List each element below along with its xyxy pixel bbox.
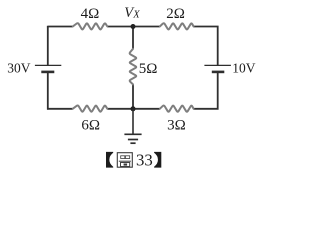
caption left lenticular bracket (106, 152, 113, 168)
ground bar 2 (128, 139, 138, 141)
svg-text:2Ω: 2Ω (166, 6, 185, 22)
resistor 6ohm (73, 106, 108, 112)
wire middle lower segment (132, 84, 134, 108)
svg-text:10V: 10V (232, 60, 256, 75)
svg-text:4Ω: 4Ω (81, 6, 100, 22)
resistor 4ohm (73, 23, 108, 29)
ground bar 1 (124, 133, 141, 135)
battery V1 30V long plate (35, 64, 61, 66)
svg-text:6Ω: 6Ω (81, 117, 100, 133)
wire left upper segment (47, 27, 49, 66)
wire bottom-right segment (194, 72, 218, 109)
wire bottom-middle segment (107, 108, 160, 110)
wire top-left segment (48, 25, 73, 28)
ground bar 3 (130, 142, 135, 144)
battery V2 10V long plate (204, 64, 231, 66)
wire left lower segment (47, 72, 49, 109)
wire middle upper segment (132, 27, 134, 50)
wire bottom-left segment (47, 108, 73, 110)
battery V1 30V short plate (41, 71, 54, 74)
wire top-right segment (194, 27, 218, 66)
caption right lenticular bracket (154, 152, 161, 168)
svg-text:X: X (132, 10, 140, 21)
ground stem (132, 109, 134, 135)
svg-text:33: 33 (136, 150, 153, 169)
resistor 5ohm (130, 49, 137, 85)
svg-text:5Ω: 5Ω (139, 61, 158, 77)
resistor 3ohm (160, 106, 194, 112)
wire top-middle segment (107, 26, 160, 28)
battery V2 10V short plate (212, 71, 225, 74)
svg-text:3Ω: 3Ω (167, 117, 186, 133)
resistor 2ohm (160, 23, 194, 29)
node Vx junction dot (131, 24, 136, 29)
node bottom junction dot (131, 106, 136, 111)
caption character tu (figure) box (117, 153, 132, 168)
svg-text:30V: 30V (7, 60, 31, 75)
